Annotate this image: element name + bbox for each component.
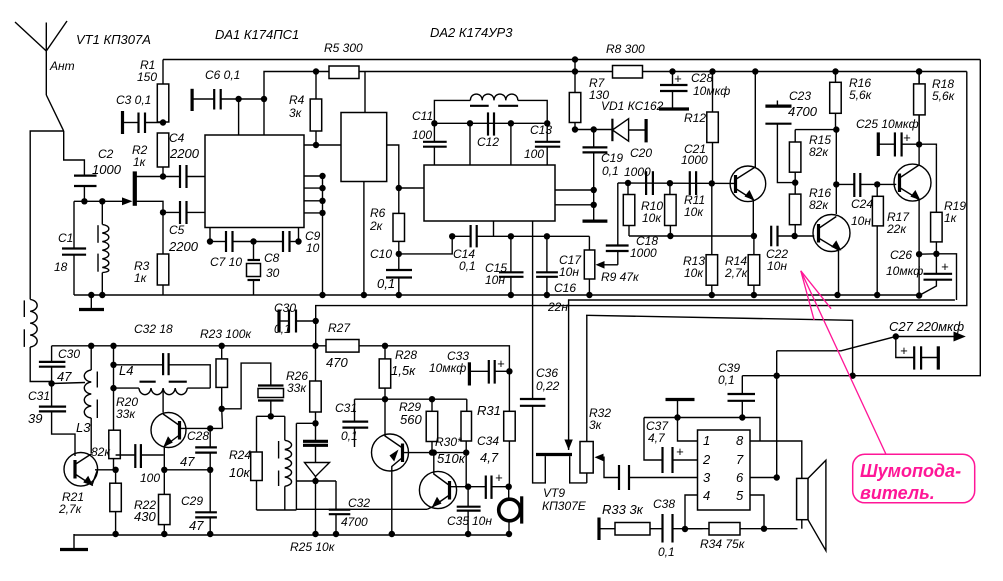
resistor R30 [461, 399, 472, 487]
node R13 ground [709, 292, 715, 298]
wire C7-C9 row [210, 241, 226, 243]
node R31/C34 [506, 484, 512, 490]
svg-text:100: 100 [524, 147, 544, 161]
svg-text:Ант: Ант [49, 59, 75, 73]
node bus2/R7 [572, 68, 578, 74]
svg-text:10мкф: 10мкф [429, 361, 466, 375]
node tank2 top [268, 413, 274, 419]
node C14 left [449, 233, 455, 239]
resistor R8 [613, 66, 643, 79]
right rail from bus1 [777, 60, 981, 376]
resistor R16 [830, 72, 842, 130]
node R19 bottom [933, 251, 939, 257]
svg-text:1к: 1к [944, 211, 958, 225]
node VT8 collector top [431, 449, 437, 455]
capacitor C35 [457, 487, 481, 534]
svg-text:C5: C5 [169, 223, 185, 237]
ground bus [74, 294, 920, 296]
wire filter bottom to ground [363, 182, 365, 295]
node bus2 corner [261, 96, 267, 102]
svg-text:C1: C1 [58, 231, 73, 245]
capacitor C10 [386, 254, 412, 295]
resistor R14 [748, 236, 760, 295]
wire varicap branch [296, 480, 336, 482]
wire bottom bus [74, 534, 510, 536]
svg-text:C30: C30 [274, 301, 296, 315]
node C32-18 tap [110, 362, 116, 368]
node R4 bottom [313, 142, 319, 148]
svg-text:R31: R31 [477, 403, 501, 418]
node C25/collector [916, 141, 922, 147]
svg-text:0,1: 0,1 [274, 322, 291, 336]
node R5/R4 [313, 68, 319, 74]
capacitor pin3 coupling [619, 465, 698, 490]
node VT8 base/C35 [465, 484, 471, 490]
resistor R4 [310, 72, 322, 146]
capacitor C14 [452, 225, 589, 247]
svg-text:10: 10 [306, 241, 320, 255]
pink barb 1 [801, 271, 814, 320]
inductor L2 left coupling coil [30, 299, 37, 347]
svg-text:0,1: 0,1 [658, 545, 675, 559]
node R23 bottom [219, 406, 225, 412]
wire pin1 from chassis [678, 418, 698, 442]
wire R23 to VT6 base riser [221, 409, 224, 429]
svg-text:C32 18: C32 18 [134, 322, 173, 336]
node R28 top [382, 343, 388, 349]
wire R16 to VT4 collector [835, 130, 837, 214]
svg-text:2к: 2к [369, 219, 384, 233]
capacitor C22 [771, 226, 814, 247]
svg-text:100: 100 [412, 128, 432, 142]
svg-text:R25 10к: R25 10к [290, 540, 336, 554]
transistor VT4 [813, 215, 850, 296]
node C39/pin6/lineD [774, 373, 780, 379]
svg-text:витель.: витель. [860, 483, 935, 503]
wire tank2 loop [257, 415, 285, 417]
svg-text:C19: C19 [601, 151, 623, 165]
node emitter ground [916, 292, 922, 298]
node R23 top [219, 343, 225, 349]
node bus1/R7 [572, 56, 578, 62]
wire lower main row [52, 345, 326, 347]
svg-text:R33 3к: R33 3к [602, 502, 644, 517]
IC DA1 box [205, 135, 304, 228]
node R28 bottom [382, 396, 388, 402]
wire VT5 emitter to ground [918, 254, 920, 295]
terminal bar R33 [597, 518, 600, 541]
node C3/R1/R2 [160, 119, 166, 125]
wire tank2 bottom [257, 509, 297, 511]
wire VT5 emitter to R19 node [919, 253, 936, 255]
node DA1 pin c [319, 198, 325, 204]
node R21 ground [112, 531, 118, 537]
node C8 top [250, 238, 256, 244]
capacitor C6 [192, 89, 264, 111]
node VT6 emitter [161, 467, 167, 473]
resistor R28 [379, 346, 391, 399]
ground bar C19 [583, 220, 608, 223]
wire C27 riser to lineD [776, 351, 778, 376]
wire VT6 emitter to R22 [163, 470, 165, 495]
svg-text:10к: 10к [642, 211, 662, 225]
node R20/L4 column top [110, 343, 116, 349]
svg-text:18: 18 [54, 260, 68, 274]
node R2/C4 [160, 173, 166, 179]
resistor R6 [393, 213, 405, 254]
wire filter top stub [364, 72, 366, 113]
resistor R1 [157, 60, 169, 123]
node C15 top [508, 233, 514, 239]
svg-text:C12: C12 [477, 135, 499, 149]
wire top IC row [644, 418, 760, 442]
node C5/R3 [160, 209, 166, 215]
svg-text:560: 560 [400, 412, 422, 427]
node C15 ground [508, 292, 514, 298]
svg-text:R28: R28 [395, 348, 417, 362]
svg-text:10н: 10н [767, 259, 787, 273]
wire pin4 [685, 495, 698, 529]
resistor R12 [707, 72, 719, 184]
transistor VT2 [64, 453, 98, 487]
capacitor C12 [488, 112, 494, 135]
wire VT1 source to C5 node [137, 201, 164, 212]
capacitor C1 [62, 201, 86, 295]
arrow VT9 drain [564, 440, 572, 451]
svg-text:47: 47 [180, 454, 195, 469]
svg-text:VD1 КС162: VD1 КС162 [601, 99, 664, 113]
antenna [15, 21, 67, 131]
quartz C8 [247, 242, 261, 296]
node R11 top [667, 180, 673, 186]
svg-text:2,7к: 2,7к [724, 266, 749, 280]
node C30/C31/coil [48, 380, 54, 386]
node C32b ground [333, 531, 339, 537]
svg-text:10мкф: 10мкф [886, 264, 923, 278]
node C28b/C29 [207, 467, 213, 473]
svg-text:82к: 82к [809, 198, 829, 212]
capacitor C32b [329, 481, 351, 534]
resistor R29 [426, 399, 438, 452]
diode VD1 [612, 119, 646, 143]
wire C27 output line [777, 337, 954, 351]
capacitor C20 [646, 171, 653, 195]
svg-text:1000: 1000 [92, 162, 122, 177]
wire pin8 to speaker [750, 441, 802, 478]
wire VT6 base [180, 427, 223, 429]
svg-text:R5 300: R5 300 [324, 41, 363, 55]
core bar L5 right [498, 105, 518, 107]
svg-text:8: 8 [736, 433, 744, 448]
transistor VT6 [151, 413, 186, 470]
wire VT8 base [450, 486, 469, 488]
wire VT1 drain to C4 node [137, 176, 164, 178]
node L4 tap [110, 385, 116, 391]
resistor R13 [706, 183, 718, 295]
potentiometer R32 [580, 315, 593, 483]
inductor L4 [114, 382, 211, 395]
wire R7 to VD1 [575, 129, 612, 131]
node DA2 pin f [591, 202, 597, 208]
chassis bar above C37 [666, 400, 695, 418]
svg-text:C4: C4 [169, 131, 185, 145]
node R14 ground [751, 292, 757, 298]
capacitor C34 electrolytic [468, 476, 509, 499]
svg-text:2,7к: 2,7к [58, 502, 83, 516]
transistor VT8 [419, 453, 456, 510]
capacitor C11 [423, 123, 447, 165]
speaker BA1 [797, 460, 826, 551]
node C6/DA1 pin [235, 96, 241, 102]
capacitor C32 18 [114, 353, 211, 388]
node tank bottom 2 [99, 292, 105, 298]
capacitor C31 lower-left [39, 407, 75, 456]
svg-text:10к: 10к [684, 205, 704, 219]
resistor R23 [216, 346, 228, 409]
wire C39 top link [742, 375, 776, 377]
svg-text:3к: 3к [589, 418, 603, 432]
wire VT7 emitter to bus [391, 478, 393, 534]
capacitor C24 [836, 173, 896, 197]
svg-text:C16: C16 [554, 281, 576, 295]
svg-text:C13: C13 [530, 123, 552, 137]
node DA1 column ground [319, 292, 325, 298]
node R10 top [625, 180, 631, 186]
svg-text:3к: 3к [289, 106, 303, 120]
resistor R34 [685, 523, 798, 536]
core bar L5 left [470, 105, 489, 107]
node R16/R15 [833, 126, 839, 132]
resistor R2 [157, 133, 169, 177]
capacitor C19 [583, 130, 608, 222]
node R6/C10 [396, 251, 402, 257]
svg-text:33к: 33к [116, 407, 136, 421]
svg-text:100: 100 [140, 471, 160, 485]
right rail from bus2 [316, 72, 967, 346]
svg-text:C8: C8 [264, 251, 280, 265]
svg-text:VT9: VT9 [543, 486, 565, 500]
svg-text:510к: 510к [437, 451, 466, 466]
node tank n1 [431, 120, 437, 126]
IC DA2 box [424, 165, 555, 221]
svg-text:C36: C36 [536, 366, 558, 380]
svg-text:10н: 10н [851, 214, 871, 228]
ground symbol upper-left [79, 295, 104, 310]
svg-text:DA1 К174ПС1: DA1 К174ПС1 [215, 27, 299, 42]
svg-text:2: 2 [702, 452, 711, 467]
wire VT8 emitter row [296, 508, 427, 510]
wire lower main row right part [359, 346, 509, 412]
svg-text:C35: C35 [447, 514, 469, 528]
node VT7 emitter ground [389, 531, 395, 537]
wire DA1 top pin2 [263, 99, 265, 135]
svg-text:R4: R4 [289, 93, 305, 107]
capacitor C17 [536, 236, 558, 295]
node R29 top [429, 396, 435, 402]
node varicap bottom [312, 478, 318, 484]
node DA1 pin a [319, 173, 325, 179]
wire R23 to quartz2 [222, 363, 271, 409]
svg-text:0,1: 0,1 [602, 164, 619, 178]
capacitor C23 [765, 101, 795, 183]
svg-text:R23 100к: R23 100к [200, 327, 252, 341]
svg-text:10н: 10н [485, 273, 505, 287]
svg-text:+: + [903, 130, 911, 145]
node R16b bottom [791, 233, 797, 239]
svg-text:C34: C34 [477, 434, 499, 448]
resistor R26 [310, 346, 322, 441]
svg-text:1000: 1000 [681, 153, 708, 167]
svg-text:C2: C2 [98, 147, 114, 161]
svg-text:R6: R6 [370, 206, 386, 220]
node C24/R17/C25 [874, 181, 880, 187]
wire L4 tap to VT6 [162, 390, 164, 413]
svg-text:R24: R24 [229, 448, 251, 462]
node L3 top [88, 343, 94, 349]
capacitor C28 electrolytic [659, 72, 689, 110]
filter box ZQ block [341, 113, 387, 182]
svg-text:C28: C28 [187, 429, 209, 443]
node C35 ground [465, 531, 471, 537]
svg-text:C32: C32 [348, 496, 370, 510]
svg-text:5,6к: 5,6к [849, 88, 873, 102]
resistor R22 [159, 494, 171, 534]
node C33/R31 [506, 368, 512, 374]
node VT5 collector top [916, 68, 922, 74]
resistor R5 [329, 66, 359, 79]
wire filter out [387, 145, 399, 213]
capacitor C26 electrolytic [919, 254, 952, 296]
svg-text:VT1 КП307А: VT1 КП307А [76, 32, 151, 47]
wire DA1 out to filter [304, 144, 341, 146]
wire tank mid [434, 122, 547, 124]
resistor R20 [109, 430, 121, 470]
arrow R9 wiper [596, 261, 605, 269]
node chassis/C37 [674, 414, 680, 420]
svg-text:30: 30 [266, 266, 280, 280]
transistor VT1 gate bar [133, 171, 137, 205]
capacitor C28b [195, 428, 217, 469]
node C30b [313, 318, 319, 324]
node R16 top [832, 68, 838, 74]
wire emitter row 2 [164, 469, 210, 471]
resistor R24 [251, 416, 263, 510]
IC DD1 box [698, 430, 751, 510]
svg-text:R34 75к: R34 75к [700, 537, 746, 551]
node R18 top [916, 68, 922, 74]
node R11 bottom [667, 233, 673, 239]
svg-text:C27 220мкф: C27 220мкф [889, 319, 964, 334]
wire R19 node to feedback riser [936, 254, 956, 300]
node BF1 ground [506, 531, 512, 537]
wire DA1 bottom pins [209, 228, 211, 242]
wire antenna to left bus [30, 131, 64, 299]
node R15/R16b/C23 [792, 179, 798, 185]
inductor L3 [52, 346, 98, 453]
node L1/tank [99, 198, 105, 204]
svg-text:+: + [674, 71, 682, 86]
svg-text:47: 47 [57, 369, 72, 384]
svg-text:4,7: 4,7 [480, 450, 499, 465]
resistor R3 [157, 212, 169, 295]
node C19 top [591, 126, 597, 132]
capacitor C36 [520, 221, 546, 483]
resistor R21 [110, 470, 122, 534]
svg-text:L4: L4 [119, 363, 133, 378]
node R29 bottom [429, 449, 435, 455]
bus2 second supply wire [264, 72, 967, 100]
resistor R15 [789, 130, 801, 183]
svg-text:R8 300: R8 300 [606, 42, 645, 56]
capacitor C30b feedback [279, 310, 316, 333]
capacitor C13 [535, 123, 560, 165]
capacitor C9 [283, 231, 299, 252]
wire VT2 emitter row [95, 469, 116, 471]
transistor VT9 gate bar [536, 453, 572, 456]
svg-text:0,1: 0,1 [377, 276, 395, 291]
wire R28 node row [355, 398, 467, 400]
node R26 top [312, 343, 318, 349]
node VT4 emitter ground [834, 292, 840, 298]
capacitor C39 [728, 376, 756, 418]
node DA1 pin b [319, 185, 325, 191]
bus1 top supply wire [163, 59, 980, 61]
wire R15 top link [795, 129, 836, 131]
node filter ground [361, 292, 367, 298]
wire VT9 source leads [570, 456, 587, 483]
node tank n2 [467, 120, 473, 126]
svg-text:10н: 10н [472, 514, 492, 528]
svg-text:R27: R27 [328, 321, 351, 335]
transistor VT5 [894, 72, 931, 255]
node R22 ground [161, 531, 167, 537]
svg-text:C38: C38 [653, 497, 675, 511]
wire to DA2 left pin [399, 187, 424, 189]
node C27 tap [893, 333, 899, 339]
wire DA2 bottom pin to C14 row [493, 221, 495, 236]
svg-text:C3 0,1: C3 0,1 [116, 93, 151, 107]
wire DA2 right pin stubs [555, 190, 594, 205]
wire tank tap1 to DA2 [469, 123, 471, 165]
wire R20 column [113, 346, 115, 430]
node R20/R21 [112, 467, 118, 473]
svg-text:DA2 К174УР3: DA2 К174УР3 [430, 25, 513, 40]
node base/C28b [207, 425, 213, 431]
svg-text:+: + [941, 259, 949, 274]
svg-text:1000: 1000 [624, 165, 651, 179]
svg-text:C31: C31 [335, 401, 357, 415]
arrow VT1 gate [122, 197, 133, 205]
capacitor C37 electrolytic [644, 418, 698, 474]
svg-text:150: 150 [137, 70, 157, 84]
svg-text:0,22: 0,22 [536, 379, 560, 393]
capacitor C30 lower-left [39, 346, 66, 407]
svg-text:4700: 4700 [788, 104, 818, 119]
svg-text:1000: 1000 [630, 246, 657, 260]
node varicap ground [312, 531, 318, 537]
svg-text:10к: 10к [229, 465, 250, 480]
svg-text:+: + [495, 470, 503, 485]
node C10 ground [396, 292, 402, 298]
resistor R33 [599, 523, 663, 536]
node pin6 [774, 474, 780, 480]
svg-text:+: + [676, 444, 684, 459]
node C39 bottom [739, 414, 745, 420]
svg-text:C24: C24 [851, 197, 873, 211]
wire antenna lead to C2 [64, 131, 85, 176]
svg-text:3: 3 [703, 470, 711, 485]
pink callout box [853, 454, 975, 503]
